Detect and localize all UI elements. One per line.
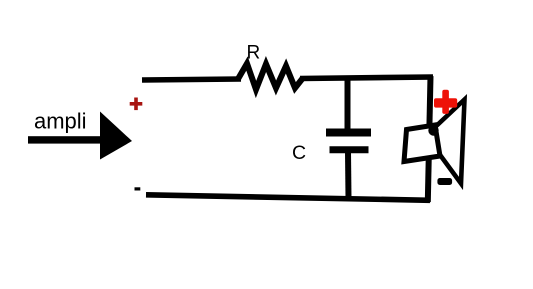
wire top left: [142, 79, 241, 80]
arrow (input signal): [28, 112, 132, 160]
wire bottom: [146, 195, 430, 201]
capacitor C plate bottom: [330, 146, 369, 153]
node - (input negative): [135, 187, 141, 190]
resistor R1: [238, 64, 303, 90]
junction dot speaker + wire: [428, 125, 438, 135]
node + (input positive): [130, 98, 143, 111]
speaker + terminal: [434, 90, 457, 114]
wire capacitor bottom stub: [345, 152, 352, 198]
capacitor C plate top: [326, 129, 371, 137]
speaker LS1 horn cone: [433, 100, 465, 184]
speaker LS1 driver box: [404, 125, 440, 162]
wire top right: [300, 77, 433, 79]
svg-text:ampli: ampli: [34, 109, 87, 134]
svg-text:C: C: [292, 142, 306, 164]
wire capacitor top stub: [345, 78, 351, 131]
speaker - terminal: [437, 178, 452, 185]
wire right vertical: [428, 76, 431, 202]
svg-text:R: R: [247, 43, 261, 64]
